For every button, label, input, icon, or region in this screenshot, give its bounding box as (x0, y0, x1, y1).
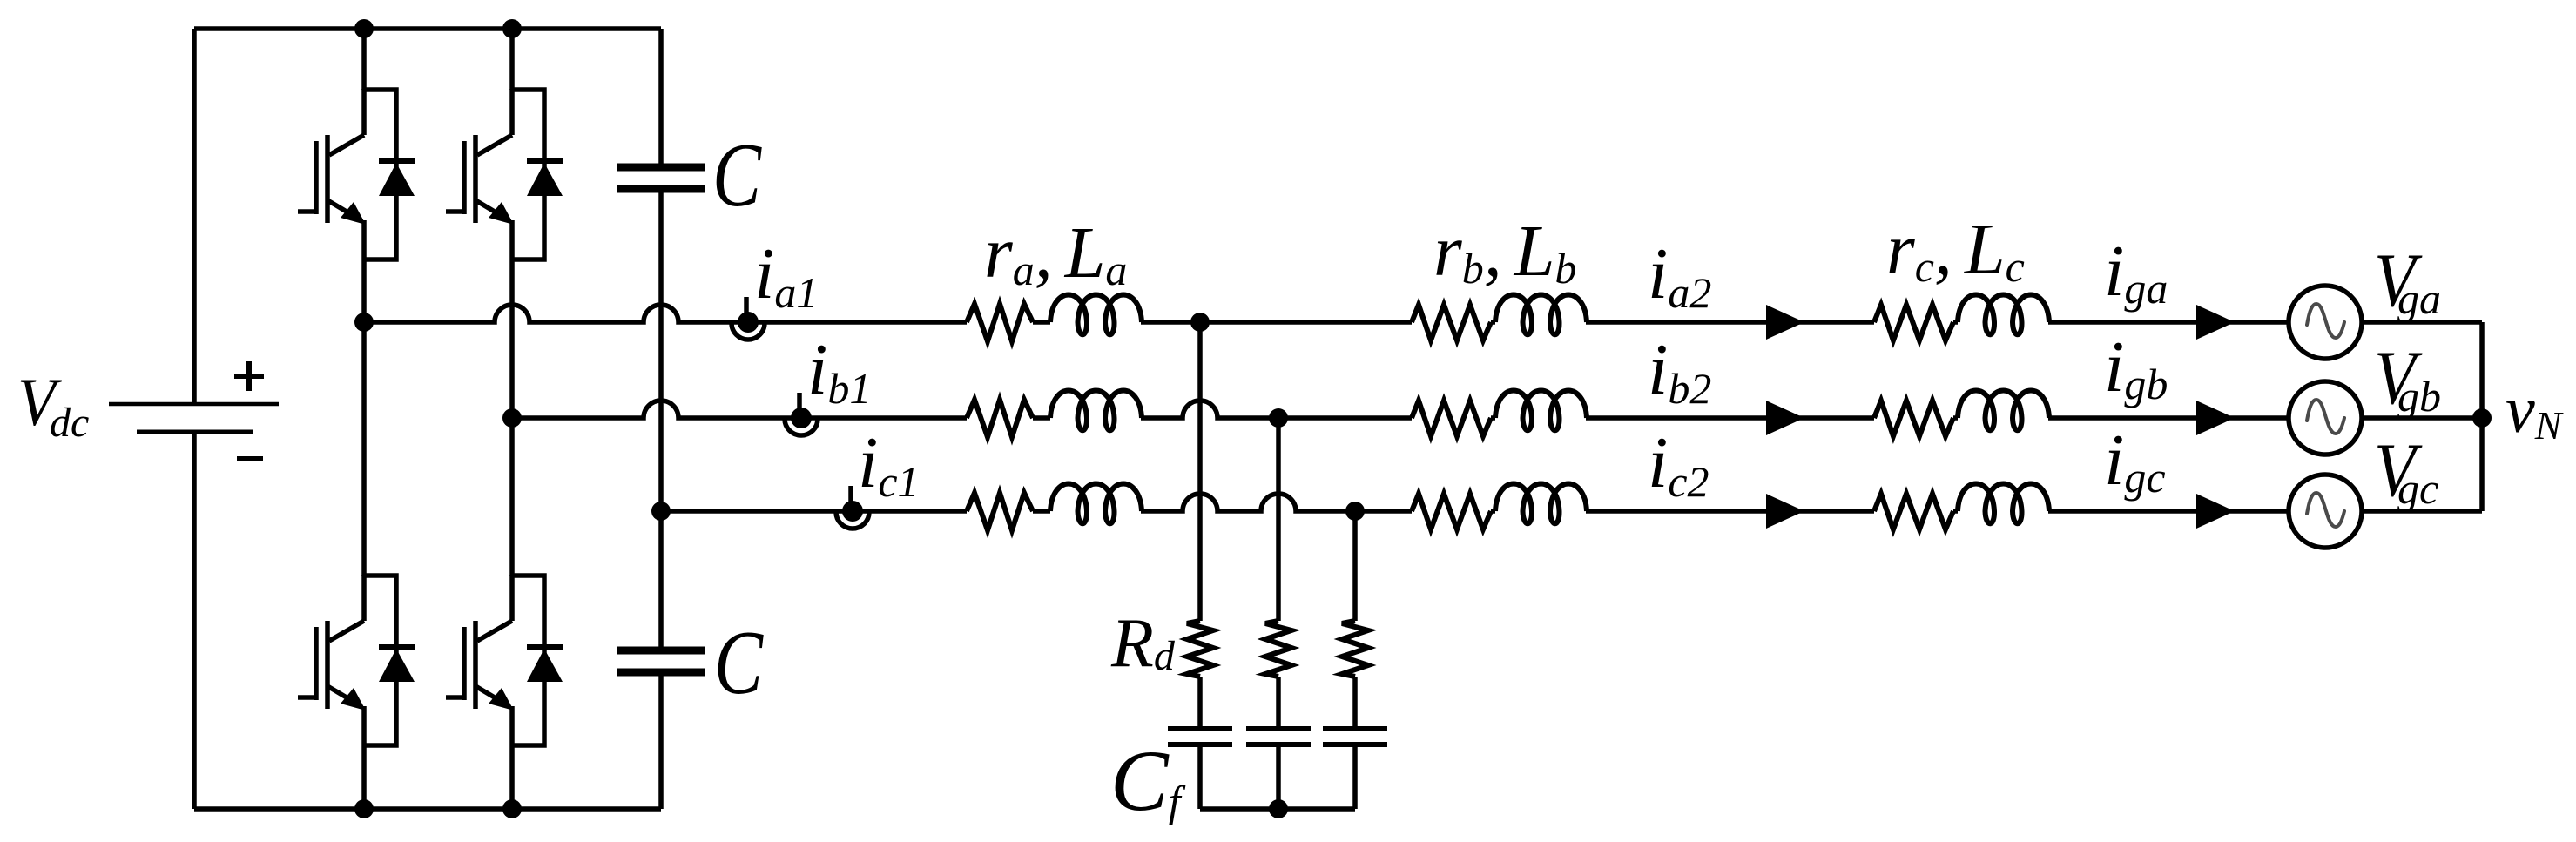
svg-text:ga: ga (2397, 274, 2441, 323)
svg-text:dc: dc (50, 400, 89, 446)
svg-text:rc,Lc: rc,Lc (1886, 209, 2025, 291)
svg-text:vN: vN (2505, 374, 2564, 448)
svg-text:ic1: ic1 (858, 422, 920, 506)
svg-text:rb,Lb: rb,Lb (1433, 211, 1576, 293)
svg-text:ic2: ic2 (1648, 422, 1709, 506)
svg-text:iga: iga (2104, 231, 2168, 313)
svg-text:ib2: ib2 (1648, 329, 1711, 413)
svg-text:C: C (712, 124, 763, 226)
svg-text:ia1: ia1 (754, 233, 818, 317)
svg-text:ib1: ib1 (807, 329, 871, 413)
svg-text:gc: gc (2397, 464, 2438, 513)
svg-text:igc: igc (2104, 420, 2166, 502)
svg-text:igb: igb (2104, 327, 2168, 408)
svg-text:ra,La: ra,La (984, 212, 1127, 294)
svg-text:gb: gb (2397, 372, 2441, 421)
svg-text:Rd: Rd (1110, 605, 1176, 682)
svg-text:C: C (714, 611, 765, 713)
svg-text:ia2: ia2 (1648, 233, 1711, 317)
